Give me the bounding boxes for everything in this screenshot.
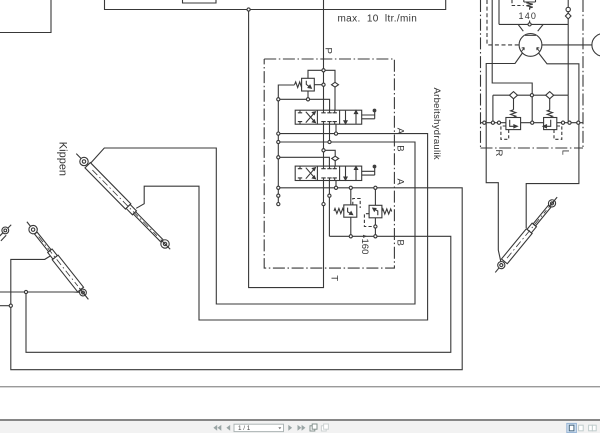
- svg-text:Arbeitshydraulik: Arbeitshydraulik: [431, 88, 442, 160]
- svg-text:140: 140: [519, 11, 538, 21]
- svg-text:A: A: [395, 179, 406, 186]
- svg-text:A: A: [395, 128, 406, 135]
- svg-text:R: R: [493, 150, 504, 157]
- svg-text:L: L: [560, 150, 571, 155]
- svg-text:P: P: [322, 48, 333, 54]
- svg-text:B: B: [395, 240, 406, 246]
- svg-text:B: B: [395, 145, 406, 151]
- svg-text:Kippen: Kippen: [57, 142, 69, 176]
- svg-text:1 / 1: 1 / 1: [238, 425, 251, 432]
- svg-text:max. 10 ltr./min: max. 10 ltr./min: [338, 14, 418, 25]
- svg-text:T: T: [329, 275, 340, 281]
- svg-text:160: 160: [359, 239, 370, 255]
